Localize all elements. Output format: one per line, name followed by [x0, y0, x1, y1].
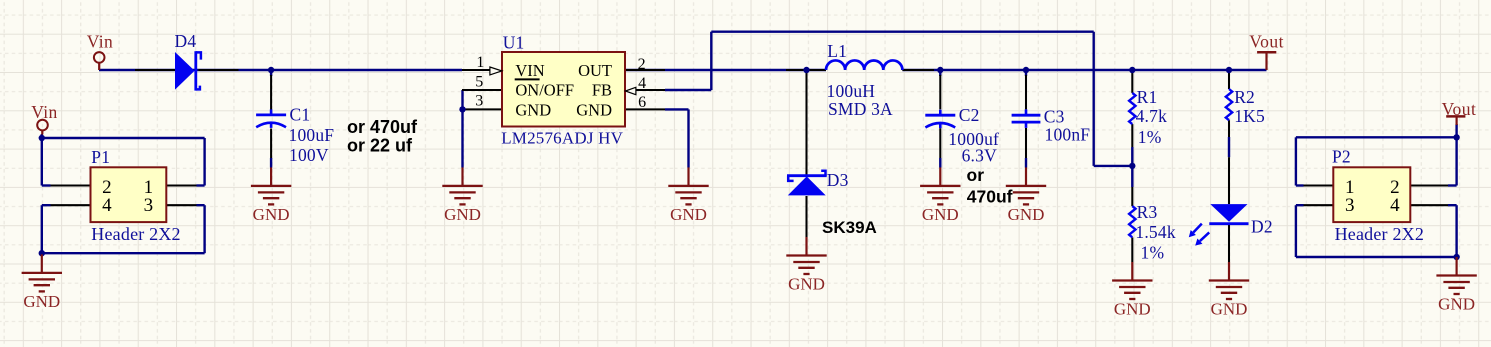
svg-text:Vout: Vout	[1249, 32, 1284, 52]
svg-text:100nF: 100nF	[1045, 124, 1091, 144]
svg-text:or: or	[967, 165, 985, 185]
svg-text:GND: GND	[515, 101, 551, 120]
svg-text:GND: GND	[1114, 300, 1151, 319]
svg-text:GND: GND	[1008, 205, 1045, 224]
svg-text:Vin: Vin	[31, 102, 57, 122]
svg-text:100uH: 100uH	[827, 81, 876, 101]
svg-text:U1: U1	[503, 32, 525, 52]
svg-text:or 22 uf: or 22 uf	[347, 135, 413, 155]
svg-text:5: 5	[475, 74, 483, 91]
svg-text:R2: R2	[1234, 87, 1255, 107]
svg-text:4.7k: 4.7k	[1136, 106, 1167, 126]
svg-text:R3: R3	[1137, 202, 1158, 222]
svg-text:OUT: OUT	[578, 61, 612, 80]
svg-text:Vin: Vin	[87, 31, 113, 51]
svg-text:VIN: VIN	[515, 61, 544, 80]
svg-text:Vout: Vout	[1442, 99, 1477, 119]
svg-text:ON/OFF: ON/OFF	[515, 81, 574, 100]
svg-text:C2: C2	[959, 105, 980, 125]
svg-text:SMD 3A: SMD 3A	[828, 99, 893, 119]
svg-text:C1: C1	[290, 105, 311, 125]
svg-text:GND: GND	[922, 205, 959, 224]
svg-text:1.54k: 1.54k	[1135, 222, 1175, 242]
svg-text:C3: C3	[1044, 106, 1065, 126]
svg-text:470uf: 470uf	[967, 187, 1013, 207]
svg-text:Header 2X2: Header 2X2	[1335, 224, 1424, 244]
svg-text:1: 1	[476, 54, 484, 71]
svg-text:GND: GND	[23, 292, 60, 311]
svg-text:P2: P2	[1332, 146, 1351, 166]
svg-text:R1: R1	[1137, 87, 1158, 107]
svg-text:D2: D2	[1251, 216, 1273, 236]
svg-text:1%: 1%	[1138, 127, 1162, 147]
svg-text:GND: GND	[670, 205, 707, 224]
svg-text:6: 6	[638, 94, 646, 111]
svg-text:3: 3	[144, 195, 154, 216]
svg-text:1%: 1%	[1141, 243, 1165, 263]
svg-text:4: 4	[1390, 195, 1400, 216]
svg-text:3: 3	[1345, 195, 1355, 216]
svg-text:LM2576ADJ HV: LM2576ADJ HV	[501, 129, 623, 148]
svg-text:P1: P1	[91, 147, 110, 167]
svg-text:D4: D4	[175, 31, 197, 51]
svg-text:GND: GND	[788, 275, 825, 294]
svg-text:FB: FB	[592, 81, 612, 100]
svg-text:L1: L1	[827, 41, 847, 61]
svg-text:GND: GND	[1438, 295, 1475, 314]
svg-text:Header 2X2: Header 2X2	[91, 224, 180, 244]
svg-text:2: 2	[638, 56, 646, 73]
svg-text:1K5: 1K5	[1234, 106, 1265, 126]
svg-text:GND: GND	[444, 205, 481, 224]
svg-text:GND: GND	[1211, 300, 1248, 319]
svg-text:or 470uf: or 470uf	[347, 117, 418, 137]
svg-text:SK39A: SK39A	[822, 218, 877, 237]
svg-text:4: 4	[102, 195, 112, 216]
svg-text:GND: GND	[576, 101, 612, 120]
svg-text:100V: 100V	[289, 145, 329, 165]
svg-text:3: 3	[475, 93, 483, 110]
svg-text:6.3V: 6.3V	[962, 146, 997, 166]
svg-text:100uF: 100uF	[289, 125, 335, 145]
svg-text:D3: D3	[827, 170, 849, 190]
svg-text:GND: GND	[253, 205, 290, 224]
svg-text:4: 4	[638, 75, 646, 92]
